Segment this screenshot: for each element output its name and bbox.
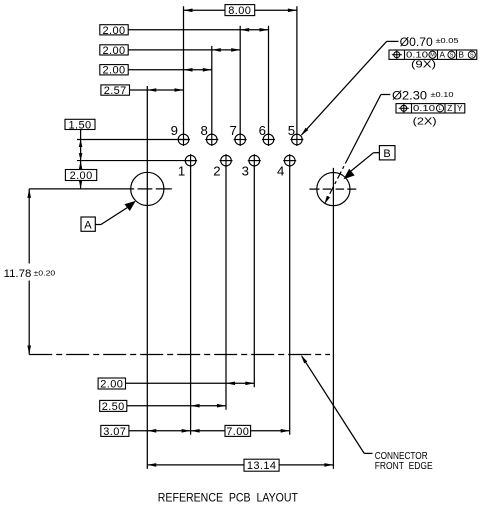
svg-text:Y: Y — [457, 104, 463, 113]
svg-text:(2X): (2X) — [413, 115, 437, 127]
svg-text:S: S — [470, 53, 474, 59]
dimension 13.14 line — [147, 464, 244, 466]
dimension 2.00 pins 8-7 line — [128, 49, 240, 51]
dimension 2.00 pins 7-6 line — [128, 29, 268, 31]
svg-text:2.00: 2.00 — [102, 65, 125, 77]
svg-text:2: 2 — [213, 163, 221, 178]
wire pin8 extension line — [211, 46, 213, 134]
dimension 2.00 vertical line — [80, 161, 82, 170]
svg-text:2.57: 2.57 — [104, 85, 127, 97]
pin 5 pad — [292, 134, 303, 145]
dimension 8.00 label — [225, 5, 255, 16]
leader connector front edge — [364, 452, 372, 454]
svg-text:FRONT EDGE: FRONT EDGE — [375, 461, 433, 472]
svg-text:±0.20: ±0.20 — [34, 269, 56, 278]
hole B circle — [317, 173, 350, 206]
svg-text:8: 8 — [200, 123, 208, 138]
svg-text:Z: Z — [447, 104, 452, 113]
svg-text:2.50: 2.50 — [102, 401, 125, 413]
dimension 3.07 line — [129, 430, 225, 432]
dimension 1.50 label — [65, 119, 95, 129]
dimension 7.00 line — [251, 430, 290, 432]
dimension 2.00 pins 7-6 label — [100, 25, 128, 35]
svg-text:2.00: 2.00 — [102, 45, 125, 57]
wire pin9 extension line — [183, 6, 185, 134]
svg-text:(9X): (9X) — [411, 59, 436, 71]
svg-text:3.07: 3.07 — [103, 426, 126, 438]
wire hole A horizontal centerline — [29, 188, 134, 190]
wire pin5 extension line — [296, 6, 298, 134]
feature control frame 2X — [396, 104, 465, 113]
wire pin2 extension line — [225, 166, 227, 410]
dimension 2.57 line — [130, 89, 184, 91]
dimension 2.00 vertical label — [65, 170, 96, 181]
svg-text:7.00: 7.00 — [226, 426, 249, 438]
wire hole B centerline vertical — [332, 168, 334, 469]
wire connector front edge centerline — [29, 354, 330, 356]
svg-text:L: L — [439, 106, 442, 112]
wire hole A centerline vertical — [146, 86, 148, 469]
wire bottom-row extension to left — [77, 160, 196, 162]
svg-text:B: B — [459, 51, 465, 60]
svg-text:4: 4 — [277, 163, 285, 178]
pin 4 pad — [284, 155, 295, 166]
dimension 11.78 line — [28, 189, 30, 264]
pin 7 pad — [235, 134, 246, 145]
leader 2X holes — [381, 94, 390, 96]
dimension 2.00 pins 2-3 line — [126, 382, 255, 384]
feature control frame 9X — [389, 50, 477, 59]
pin 1 pad — [185, 155, 196, 166]
dimension 1.50 line — [80, 130, 82, 161]
dimension 7.00 label — [225, 425, 251, 436]
svg-text:2.00: 2.00 — [100, 379, 123, 391]
svg-text:A: A — [84, 220, 92, 232]
wire pin6 extension line — [268, 26, 270, 134]
pin 3 pad — [249, 155, 260, 166]
datum B label — [379, 146, 395, 160]
svg-text:2.00: 2.00 — [102, 25, 125, 37]
svg-text:9: 9 — [171, 123, 179, 138]
dimension 2.00 pins 9-8 label — [100, 65, 128, 75]
dimension 3.07 label — [101, 425, 129, 436]
dimension 2.00 pins 2-3 label — [98, 378, 125, 389]
svg-text:S: S — [450, 53, 454, 59]
pin 9 pad — [178, 134, 189, 145]
pin 8 pad — [207, 134, 218, 145]
wire pin3 extension line — [253, 166, 255, 387]
dimension 13.14 label — [244, 459, 279, 471]
svg-text:Ø0.70: Ø0.70 — [400, 37, 433, 49]
svg-text:8.00: 8.00 — [228, 5, 251, 17]
svg-text:5: 5 — [288, 123, 296, 138]
svg-text:11.78: 11.78 — [4, 268, 32, 280]
svg-text:0.10: 0.10 — [413, 103, 435, 113]
datum A leader — [95, 224, 101, 226]
dimension 8.00 line — [184, 9, 226, 11]
pin 2 pad — [221, 155, 232, 166]
svg-text:6: 6 — [259, 123, 267, 138]
datum B leader — [374, 152, 380, 154]
dimension 2.57 label — [101, 85, 130, 95]
wire pin1 extension line — [190, 166, 192, 435]
svg-text:±0.10: ±0.10 — [431, 90, 454, 99]
wire hole B horizontal centerline — [309, 188, 319, 190]
svg-text:3: 3 — [242, 163, 250, 178]
dimension 2.00 pins 9-8 line — [128, 69, 212, 71]
wire pin7 extension line — [239, 26, 241, 134]
pin 6 pad — [263, 134, 274, 145]
hole A circle — [131, 172, 164, 205]
dimension 2.50 label — [100, 400, 127, 411]
svg-text:±0.05: ±0.05 — [436, 36, 459, 45]
svg-text:7: 7 — [229, 123, 237, 138]
svg-text:Ø2.30: Ø2.30 — [392, 91, 427, 103]
svg-text:A: A — [440, 51, 446, 60]
wire top-row extension to left — [77, 139, 189, 141]
svg-text:13.14: 13.14 — [247, 460, 277, 472]
dimension 2.50 line — [127, 405, 226, 407]
svg-text:REFERENCE PCB LAYOUT: REFERENCE PCB LAYOUT — [158, 490, 299, 504]
svg-text:1: 1 — [178, 163, 186, 178]
dimension 2.00 pins 8-7 label — [100, 45, 128, 55]
svg-text:B: B — [383, 148, 391, 160]
wire pin4 extension line — [289, 166, 291, 435]
datum A label — [81, 217, 95, 231]
leader 9X holes — [387, 40, 399, 42]
